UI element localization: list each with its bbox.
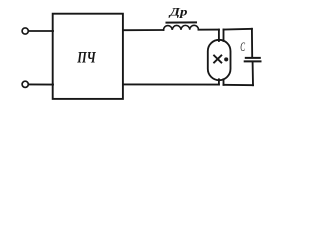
lamp neck bottom [218, 79, 220, 84]
lamp x mark [214, 56, 221, 63]
wire top output (box to choke) [123, 29, 164, 31]
wire bottom rail (box to lamp) [123, 83, 219, 85]
capacitor C bottom plate [245, 60, 261, 62]
capacitor branch wire bottom [252, 62, 254, 85]
input terminal top [22, 28, 28, 34]
wire bottom input [29, 83, 53, 85]
capacitor branch wire top [251, 29, 253, 57]
svg-text:C: C [240, 39, 245, 54]
wire bottom rail (lamp to capacitor) [224, 84, 254, 86]
lamp neck top [218, 30, 220, 41]
lamp dot electrode [224, 57, 228, 61]
inductor core bar [167, 21, 197, 23]
svg-text:ПЧ: ПЧ [76, 49, 96, 66]
capacitor C top plate [246, 57, 260, 59]
inductor Др (choke coil) [164, 25, 199, 30]
wire lamp to capacitor branch [224, 28, 252, 31]
wire top input [29, 30, 53, 32]
lamp EL (discharge lamp bulb) [208, 40, 231, 80]
converter box U1 (ПЧ) [53, 14, 123, 99]
svg-text:Др: Др [169, 5, 188, 19]
wire choke to lamp [199, 29, 219, 31]
input terminal bottom [22, 81, 28, 87]
